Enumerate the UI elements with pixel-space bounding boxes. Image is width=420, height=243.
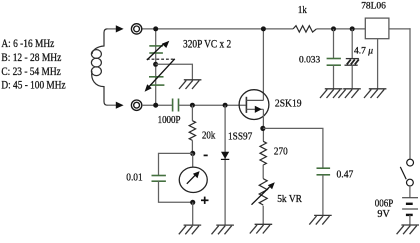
svg-text:20k: 20k [202, 131, 216, 142]
wire top rail from J1 to 1k resistor [142, 28, 293, 30]
ground 0.033 [320, 89, 342, 98]
connector J1 top jack [131, 24, 141, 34]
node meter top [190, 151, 195, 156]
wire variable capacitor branch vertical [155, 29, 157, 105]
wire top rail from 1k to regulator [316, 28, 365, 30]
ganged coupling dashed line [147, 58, 175, 60]
node between VC sections [153, 62, 158, 67]
node source [260, 126, 265, 131]
inductor L1 coil [91, 29, 107, 105]
variable capacitor VC1a arrow [147, 41, 169, 60]
resistor R1 1k [293, 26, 316, 32]
node 4.7u top [350, 26, 355, 31]
svg-text:1SS97: 1SS97 [228, 131, 252, 142]
wire gate node down to 20k [191, 105, 193, 121]
resistor R2 20k [189, 121, 195, 141]
wire diode branch [224, 105, 226, 225]
svg-text:4.7 μ: 4.7 μ [354, 47, 373, 57]
node 20k branch [190, 103, 195, 108]
minus sign [204, 154, 208, 156]
switch SW1 [400, 159, 413, 186]
capacitor C5 4.7u electrolytic [345, 59, 359, 66]
plus sign [201, 197, 209, 204]
wire VC midpoint to ground [156, 64, 193, 80]
meter M1 [179, 167, 207, 192]
ground regulator [364, 89, 386, 98]
ground VC midpoint [179, 80, 201, 89]
svg-text:D: 45 - 100 MHz: D: 45 - 100 MHz [1, 80, 65, 92]
wire bottom rail jack to 1000P [142, 104, 173, 106]
node 0.033 top [331, 26, 336, 31]
wire regulator ground lead [377, 39, 379, 89]
variable capacitor VC1a plates [149, 46, 163, 53]
svg-text:270: 270 [274, 146, 288, 157]
ground 4.7u [338, 89, 360, 98]
ground VR [250, 224, 272, 233]
node diode branch [223, 103, 228, 108]
svg-text:C: 23 - 54 MHz: C: 23 - 54 MHz [1, 66, 60, 78]
capacitor C3 0.47 [317, 168, 331, 175]
wire 270 to VR [262, 165, 264, 179]
wire 0.033 to ground [333, 65, 335, 89]
capacitor C4 0.033 [327, 59, 341, 66]
wire meter top loop left [159, 153, 193, 175]
wire coil top to arrow [107, 28, 118, 30]
connector J2 bottom jack [131, 100, 141, 110]
wire drain from top rail [262, 29, 264, 101]
wire 4.7u branch top [351, 29, 353, 59]
wire source to 0.47 [263, 128, 323, 168]
wire battery to ground [409, 215, 411, 225]
node meter bottom [190, 200, 195, 205]
svg-text:A: 6 -16 MHz: A: 6 -16 MHz [1, 38, 54, 50]
wire 0.01 bottom loop to meter bottom node [159, 181, 193, 202]
resistor R3 270 [260, 141, 266, 165]
svg-text:320P VC x 2: 320P VC x 2 [183, 37, 231, 50]
ground battery [397, 225, 419, 234]
svg-text:2SK19: 2SK19 [275, 99, 302, 110]
arrow to bottom jack [116, 102, 124, 109]
wire switch to battery [409, 186, 411, 198]
svg-text:0.033: 0.033 [299, 56, 320, 66]
diode D1 1SS97 [221, 152, 229, 160]
svg-text:006P: 006P [375, 198, 394, 209]
wire source down [262, 109, 264, 141]
variable capacitor VC1b arrow [145, 59, 175, 92]
wire VR to ground [262, 206, 264, 225]
wire 20k to meter node [191, 140, 193, 153]
wire right side drop to switch [409, 28, 411, 159]
node top of VC branch [153, 26, 158, 31]
ground 0.47 [309, 215, 331, 224]
svg-text:1k: 1k [298, 5, 308, 16]
svg-text:5k VR: 5k VR [277, 194, 302, 205]
node drain top rail [261, 26, 266, 31]
capacitor C2 0.01 [152, 176, 166, 182]
svg-text:9V: 9V [377, 209, 390, 220]
regulator U1 78L06 [365, 18, 389, 39]
svg-text:78L06: 78L06 [361, 2, 386, 12]
wire 0.033 branch top [333, 29, 335, 59]
wire 4.7u to ground [351, 65, 353, 89]
wire bottom rail 1000P to FET gate [179, 104, 247, 106]
label A-D frequency ranges [1, 38, 65, 91]
wire meter top vertical [192, 153, 194, 167]
ground diode [212, 225, 234, 234]
node bottom of VC branch [153, 103, 158, 108]
wire 0.47 to ground [322, 175, 324, 216]
battery BT1 006P 9V [402, 198, 418, 215]
wire coil bottom to arrow [107, 104, 118, 106]
wire meter bottom to ground [192, 202, 194, 225]
variable capacitor VC1b plates [149, 77, 164, 85]
ground meter [179, 225, 201, 234]
wire regulator output to right corner [389, 28, 411, 30]
svg-text:0.01: 0.01 [126, 173, 142, 184]
svg-text:B: 12 - 28 MHz: B: 12 - 28 MHz [1, 52, 61, 64]
svg-text:1000P: 1000P [158, 115, 181, 126]
svg-text:0.47: 0.47 [337, 170, 354, 181]
transistor Q1 2SK19 [239, 90, 269, 120]
capacitor C1 1000P [173, 99, 179, 112]
potentiometer VR1 5k [252, 179, 275, 205]
arrow to top jack [116, 25, 124, 32]
